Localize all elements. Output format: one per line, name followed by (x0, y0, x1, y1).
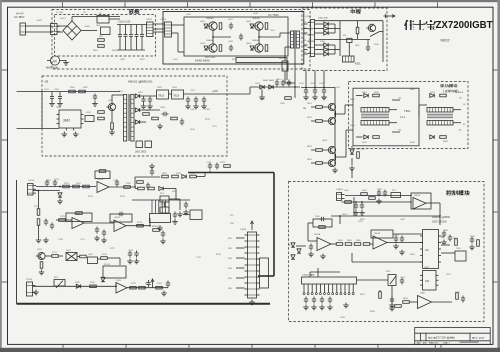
preset trimmer RP2 (160, 207, 169, 213)
control wire mid horizontal (331, 215, 440, 217)
wire connector CN1 link (145, 24, 147, 26)
snubber capacitor C23 (239, 34, 243, 41)
wire output to F (294, 80, 296, 87)
IGBT Q3 (253, 22, 263, 30)
bridge rectifier ZL1 (63, 21, 81, 40)
ground C711 (160, 239, 166, 244)
svg-text:CZ(03): CZ(03) (305, 16, 312, 18)
wire diode D43 lead (315, 53, 324, 55)
feedback wire box U801A (313, 219, 332, 227)
svg-text:KW: KW (343, 35, 346, 37)
control top rail (345, 195, 412, 197)
svg-text:+308V: +308V (84, 26, 91, 28)
wire L line to bridge (29, 25, 53, 27)
resistor R813 (379, 292, 382, 299)
zone tick top 1 (62, 2, 64, 7)
connector CN5 current feedback (28, 184, 37, 196)
torch long wire (33, 285, 116, 287)
wire F internal 5 (352, 261, 423, 263)
middle board collect bus upper (334, 24, 336, 33)
terminal block XS1 (51, 24, 61, 35)
wire driver base 1 (322, 106, 326, 108)
CN9 pin 7 lead (328, 284, 330, 293)
CN7 left lead 4 (236, 267, 245, 269)
wire T601 out bottom (389, 122, 397, 124)
svg-text:431: 431 (425, 279, 430, 283)
arrow symbol above CN7 (251, 221, 254, 230)
wire R601 bottom (357, 34, 359, 40)
analog wire top b (36, 190, 60, 192)
connector CN2 inverter input (165, 22, 172, 37)
svg-text:M602: M602 (46, 66, 53, 70)
middle board collect link (335, 28, 340, 30)
ground C612 (312, 95, 318, 100)
PWM IC U802 (420, 230, 441, 269)
wire box loop down (307, 223, 309, 241)
op-amp U703 (116, 283, 127, 294)
ground C705 (149, 164, 155, 169)
driver resistor R631 (373, 94, 380, 97)
wire trimmer link (164, 202, 166, 207)
PWM controller U201 UC3842 (57, 110, 84, 131)
driver base resistor R622 (316, 120, 323, 123)
resistor R709 (190, 175, 197, 178)
resistor R801 (361, 193, 368, 196)
svg-text:T601: T601 (404, 109, 411, 113)
title block gray cell (460, 341, 479, 343)
middle board center vertical (339, 21, 341, 56)
solid box driver transformer group (353, 88, 419, 146)
CN7 left lead 1 (236, 237, 245, 239)
CT wire loop under inverter (236, 58, 287, 63)
CN9 pin 4 pad (315, 293, 317, 295)
filter capacitor C205 (148, 97, 152, 104)
aux transformer core line 1 (127, 94, 129, 141)
wire bridge ac in top (57, 25, 67, 27)
capacitor C822 (312, 297, 316, 304)
CN9 pin 7 pad (328, 293, 330, 295)
wire mid chain b (163, 188, 176, 190)
ground torch (33, 290, 39, 295)
capacitor C804 (383, 190, 387, 197)
capacitor C612 (313, 88, 317, 95)
wire box B to box C link 6 (304, 53, 308, 55)
cross mark node at box C exit (384, 14, 389, 18)
resistor R808 (455, 239, 458, 246)
wire driver base 4 (322, 162, 326, 164)
junction output node (294, 86, 296, 88)
snubber capacitor C21 (229, 23, 233, 30)
ground C714 (134, 259, 140, 264)
svg-text:ZX7200IGBT: ZX7200IGBT (436, 20, 493, 31)
crystal Y801 (455, 251, 466, 261)
ground C822 (311, 305, 317, 310)
wire chain 4 (98, 258, 101, 260)
capacitor C807 (394, 236, 398, 243)
junction control top a (355, 201, 357, 203)
wire N line to bridge (29, 31, 53, 33)
op-amp U801B comparator (373, 236, 387, 249)
gate resistor R3 (265, 23, 268, 30)
rectifier diode D41 (324, 43, 328, 47)
analog wire top a (36, 186, 96, 188)
wire F internal 1 (393, 233, 423, 235)
optocoupler U202 PC817 (85, 116, 94, 122)
wire mid bus horizontal (132, 199, 190, 201)
CN7 left lead 6 (236, 287, 245, 289)
resistor R724 (224, 165, 231, 168)
gate transformer T602 winding bottom (427, 121, 453, 126)
title block text drawing name (428, 337, 430, 339)
CN9 pin 12 lead (348, 284, 350, 293)
gate resistor R4 (265, 45, 268, 52)
rectifier diode D203 (135, 120, 139, 124)
wire R813 link (379, 290, 381, 292)
middle board collect bus lower (334, 45, 336, 54)
svg-text:U301C: U301C (114, 217, 121, 219)
wire CN2 to bridge frame bottom (172, 32, 179, 34)
resistor R730 (138, 187, 145, 190)
dashed block 中板 (middle board) (302, 8, 387, 71)
title block col line 3 (469, 333, 471, 341)
junction gate bus (305, 87, 307, 89)
ground C613 (321, 95, 327, 100)
wire bridge top link (71, 17, 73, 22)
diode D702 (182, 175, 186, 179)
CN9 pin 1 pad (303, 293, 305, 295)
wire diode D33 lead (315, 32, 324, 34)
capacitor C207 (194, 97, 198, 104)
driver transistor Q603 (326, 146, 335, 153)
capacitor C811 (470, 237, 474, 244)
svg-text:R04: R04 (303, 40, 306, 42)
relay J1 coil (97, 16, 109, 24)
wire header top 2 (317, 268, 319, 277)
aux bottom bus (42, 127, 59, 129)
svg-text:7915: 7915 (173, 93, 180, 97)
switch S601 contact (370, 32, 380, 37)
wire T601 tap left top (356, 95, 363, 97)
CN9 pin 6 pad (324, 293, 326, 295)
svg-text:CZ601: CZ601 (36, 20, 43, 22)
electrolytic capacitor C105 (140, 25, 144, 51)
wire U802 right 2 (441, 244, 450, 246)
driver out B (336, 156, 346, 158)
ground Q701 (39, 270, 45, 275)
label 驱动模块 line1 (440, 84, 444, 87)
driver resistor R632 (373, 136, 380, 139)
dashed block power base board outer (52, 10, 310, 70)
svg-text:KC TR03: KC TR03 (268, 13, 279, 17)
gate transformer T601 core 3 (361, 117, 389, 119)
zone tick left 3 (2, 211, 8, 213)
wire relay to cap bank (109, 18, 120, 20)
ground below C201 (49, 101, 55, 106)
wire KW1 down (348, 43, 350, 57)
capacitor C206 (186, 97, 190, 104)
wire bridge top bus (72, 16, 120, 18)
ground U804 area (389, 306, 395, 311)
output diode D601 (260, 85, 264, 89)
thick bus vertical right (273, 173, 275, 277)
wire CN2 to bridge frame top (172, 24, 185, 26)
CN9 pin 11 lead (344, 284, 346, 293)
wire aux feed down (249, 87, 251, 94)
wire bus down (177, 33, 179, 52)
analog chain right (135, 176, 160, 178)
wire bridge ac in bottom (57, 31, 63, 33)
ground header (343, 303, 349, 308)
junction analog e (149, 225, 151, 227)
IC U702 CD4 (88, 257, 98, 264)
CN9 pin 8 lead (332, 284, 334, 293)
capacitor C823 (320, 297, 324, 304)
wire opamp C out (126, 225, 150, 227)
IGBT Q2 (207, 44, 217, 52)
driver out A link (345, 104, 353, 106)
junction bridge left mid (212, 36, 214, 38)
up arrow symbol LED1 (151, 279, 154, 288)
resistor R809 (477, 240, 480, 247)
CT loop drop wire (286, 63, 288, 81)
resistor R708 (172, 175, 179, 178)
control wire bus left (296, 245, 306, 247)
rectifier diode D42 (324, 48, 328, 52)
CN9 pin 10 pad (340, 293, 342, 295)
svg-text:HL601: HL601 (279, 58, 286, 60)
wire diode D32 out (328, 28, 335, 30)
driver transistor Q601 (326, 103, 335, 110)
capacitor C705 (150, 169, 154, 176)
capacitor C710 (102, 230, 106, 237)
resistor R702 (73, 185, 80, 188)
label 控制模块 (446, 190, 451, 195)
main transformer T1 primary winding (291, 31, 294, 48)
driver chain rail 2 (334, 100, 336, 166)
zener ZD801 (291, 243, 295, 247)
connector CN7 control board 20pin (245, 232, 260, 298)
svg-text:CZ602: CZ602 (146, 19, 153, 21)
cap bank top bus (117, 24, 145, 26)
electrolytic capacitor C101 (118, 25, 122, 51)
svg-text:1MBH60: 1MBH60 (206, 18, 215, 20)
svg-text:1C 20A: 1C 20A (56, 11, 63, 14)
zone tick right 2 (493, 139, 497, 141)
wire CT down to output stage (284, 71, 286, 83)
wire mid link E to F (351, 170, 353, 178)
ground right of U802 (441, 240, 447, 245)
wire diode D33 out (328, 32, 335, 34)
wire loop box comparator (103, 266, 126, 278)
aux transformer T201 secondary (131, 95, 134, 142)
cap bank bottom bus (117, 49, 145, 51)
capacitor C611 (304, 88, 308, 95)
wire driver base 2 (322, 120, 326, 122)
capacitor C813 (461, 296, 465, 303)
svg-text:R605 R606: R605 R606 (205, 57, 216, 59)
driver chain ground (332, 168, 338, 173)
svg-text:R03: R03 (303, 34, 306, 36)
driver diode D624 (430, 135, 434, 139)
zone tick left 1 (2, 69, 8, 71)
IC U704 header (150, 214, 171, 223)
resistor R723 (156, 286, 163, 289)
thick bus to connector (258, 275, 274, 277)
capacitor C718 (215, 163, 219, 170)
svg-text:U2: U2 (425, 248, 429, 252)
resistor R720 (90, 285, 97, 288)
wire F internal 3 (357, 279, 389, 281)
gate transformer T601 core 2 (361, 115, 389, 117)
CN9 pin 13 lead (352, 284, 354, 293)
capacitor C706 (44, 219, 48, 226)
wire driver base 3 (322, 149, 326, 151)
wire stack down (38, 225, 40, 237)
resistor R804 (336, 243, 343, 246)
CN7 left lead 3 (236, 257, 245, 259)
ground C801 (353, 210, 359, 215)
output stage top bus (250, 86, 300, 88)
diode D701 (58, 193, 62, 197)
capacitor C613 (322, 88, 326, 95)
capacitor C810 (448, 235, 452, 242)
ground C821 (303, 305, 309, 310)
control wire mid vertical (339, 216, 341, 224)
zone tick bottom 4 (251, 344, 253, 347)
preset trimmer RP1 (160, 196, 169, 202)
thick bus bottom (17, 303, 271, 305)
junction analog c (38, 190, 40, 192)
gate transformer T601 winding bottom (361, 121, 389, 126)
IGBT Q1 antiparallel diode (204, 24, 208, 28)
svg-text:MB102): MB102) (142, 80, 153, 84)
ground C206 (185, 104, 191, 109)
wire U802 right 3 (441, 252, 455, 254)
ground C723 (172, 219, 178, 224)
capacitor C707 (50, 223, 54, 230)
wire opamp feed down (115, 283, 117, 287)
wire U804 in (409, 301, 417, 303)
zone tick bottom 2 (125, 344, 127, 347)
feedback capacitor C805 (319, 217, 326, 221)
ground C710 (101, 238, 107, 243)
feedback loop wire box U301C (110, 214, 132, 222)
value label 相序保护 (16, 13, 18, 15)
op-amp U801D (413, 198, 426, 210)
ground U704 (157, 226, 163, 231)
driver base resistor R623 (316, 149, 323, 152)
zone tick top 3 (187, 2, 189, 7)
wire mid chain down (175, 189, 177, 201)
wire box B to box C link 3 (304, 32, 308, 34)
zone tick bottom 6 (377, 344, 379, 347)
wire stack link (33, 190, 39, 192)
aux transformer core line 2 (128, 94, 130, 141)
connector CN6 torch (27, 282, 36, 296)
svg-text:K601: K601 (355, 63, 361, 66)
svg-text:C101-C105: C101-C105 (118, 21, 131, 24)
op-amp U301A (97, 182, 109, 193)
svg-text:U801D: U801D (414, 195, 421, 197)
svg-text:3525 CA3140: 3525 CA3140 (432, 221, 447, 224)
resistor R811 (395, 305, 402, 308)
thermistor RT3 (391, 193, 401, 198)
regulator U203 7815 (157, 90, 169, 99)
wire driver lead 3 (311, 149, 316, 151)
gate transformer T601 winding top (361, 108, 389, 113)
svg-text:3843-1W: 3843-1W (455, 92, 463, 94)
ground top rail (376, 199, 382, 204)
IGBT Q2 antiparallel diode (204, 46, 208, 50)
zone tick bottom 1 (62, 344, 64, 347)
dashed block auxiliary power board (42, 76, 227, 156)
rectifier diode D43 (324, 52, 328, 56)
diode D706 (159, 187, 163, 191)
wire trimmers to bus (169, 198, 180, 200)
rectifier diode D201 (135, 94, 139, 98)
multi-pin header CN9 (302, 277, 357, 284)
ground C823 (319, 305, 325, 310)
wire bridge mid right vertical (258, 30, 260, 44)
wire box B to box C link 5 (304, 49, 308, 51)
svg-text:1MBH60: 1MBH60 (206, 40, 215, 42)
svg-text:U801A: U801A (314, 233, 321, 236)
potentiometer RP3 wiper arrow (56, 281, 63, 289)
ground C208 (201, 104, 207, 109)
title block col line 2 (425, 333, 427, 341)
arrow exiting box C (388, 15, 395, 18)
zone tick top 2 (124, 2, 126, 7)
wire T601 tap left bottom (356, 136, 363, 138)
wire U801A out (331, 243, 336, 245)
driver pair join (335, 111, 337, 118)
inverter bridge frame wires (184, 17, 288, 56)
svg-text:7500: 7500 (420, 293, 426, 295)
resistor R707 (162, 175, 169, 178)
wire diode D43 out (328, 53, 335, 55)
rectifier diode D202 (135, 108, 139, 112)
IC U704 top pins (152, 200, 169, 214)
wire opamp A out (109, 186, 135, 188)
resistor R601 (356, 27, 359, 34)
wire C613 up to middle board (323, 71, 325, 88)
ground RP4 (389, 303, 395, 308)
wire diode D32 lead (315, 28, 324, 30)
resistor R202 startup (79, 90, 86, 93)
CN9 pin 5 lead (319, 284, 321, 293)
snubber capacitor C601b (275, 80, 279, 87)
capacitor C713 (128, 251, 132, 258)
capacitor C711 (161, 231, 165, 238)
electrolytic capacitor C201 (50, 92, 54, 102)
wire C612 up to middle board (314, 71, 316, 88)
title block bottom row text (417, 342, 419, 344)
ground D701 (57, 199, 63, 204)
ground U201 pin5 (62, 132, 68, 137)
CN9 pin 8 pad (332, 293, 334, 295)
zone tick top 7 (437, 2, 439, 7)
wire aux board feed right (224, 93, 250, 95)
resistor R703 (83, 185, 90, 188)
ground C611 (303, 95, 309, 100)
resistor R01 (98, 39, 105, 42)
wire T602 in link (418, 105, 420, 117)
wire loop box right of CN7 (260, 258, 269, 288)
wire T601 output stub 2 (392, 131, 400, 133)
electrolytic capacitor C202 (58, 92, 62, 102)
CN9 pin 10 lead (340, 284, 342, 293)
connector CN3 middle board (308, 20, 315, 57)
